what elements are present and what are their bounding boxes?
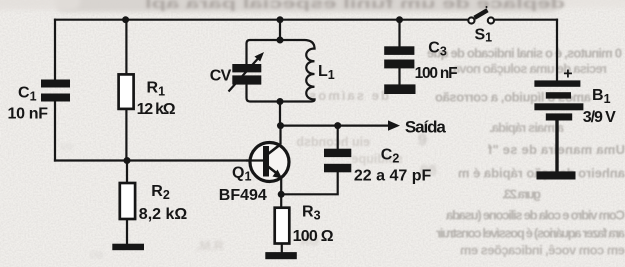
svg-text:recisa de uma solução nova.: recisa de uma solução nova.	[450, 61, 607, 76]
svg-text:10 nF: 10 nF	[8, 106, 49, 123]
svg-text:oa: oa	[90, 247, 104, 261]
svg-text:.M.R: .M.R	[196, 238, 224, 253]
svg-text:eiu hcondsb: eiu hcondsb	[296, 135, 370, 149]
svg-text:12 kΩ: 12 kΩ	[137, 101, 176, 118]
svg-text:CV: CV	[210, 67, 232, 84]
svg-text:BF494: BF494	[219, 187, 267, 204]
svg-text:em com você, indicações em: em com você, indicações em	[460, 243, 625, 258]
svg-text:+: +	[563, 66, 572, 83]
svg-text:deplace de um funil especial p: deplace de um funil especial para apl	[145, 0, 565, 11]
svg-text:22 a 47 pF: 22 a 47 pF	[354, 168, 432, 185]
svg-text:8,2 kΩ: 8,2 kΩ	[139, 206, 188, 223]
svg-text:ara fazer aquários) é possível: ara fazer aquários) é possível construir	[436, 226, 625, 241]
svg-text:100 Ω: 100 Ω	[293, 228, 334, 245]
svg-text:a mais rápida.: a mais rápida.	[489, 120, 564, 135]
svg-text:vo: vo	[60, 139, 73, 153]
svg-text:Saída: Saída	[405, 118, 447, 137]
svg-text:Com vidro e cola de silicone (: Com vidro e cola de silicone (usada	[445, 208, 625, 223]
svg-text:0 minutos, é o sinal indicado: 0 minutos, é o sinal indicado de que	[427, 46, 622, 61]
svg-text:3/9 V: 3/9 V	[583, 109, 616, 126]
svg-text:100 nF: 100 nF	[415, 65, 458, 82]
svg-text:de saímos: de saímos	[309, 88, 389, 103]
svg-text:gura 23.: gura 23.	[502, 187, 541, 202]
